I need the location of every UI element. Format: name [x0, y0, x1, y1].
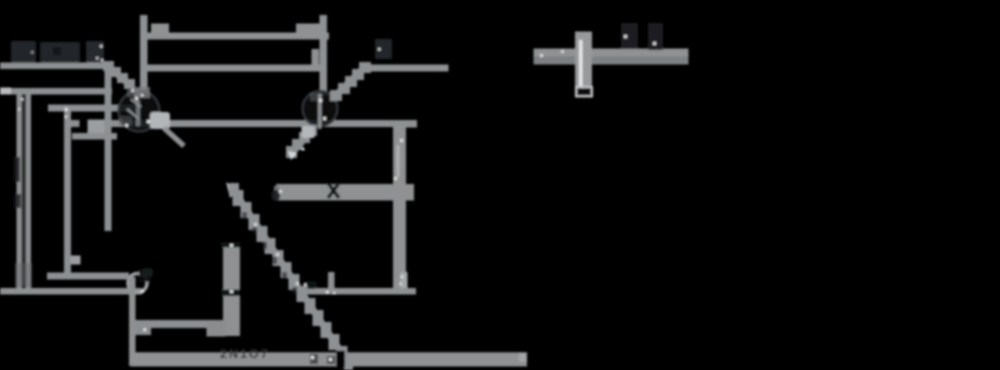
wire base lead of Q2 staircase — [334, 66, 366, 97]
wire top rail A — [140, 33, 329, 40]
wire thick bus y192 — [276, 184, 414, 201]
node speck on output line a — [304, 284, 307, 287]
transistor Q1 inner bar — [136, 100, 140, 126]
label supply text blob 3 — [86, 41, 104, 63]
wire left rail y91 — [0, 88, 112, 95]
resistor R5 dark band middle — [221, 290, 240, 297]
node lighter patch at rail right end — [519, 353, 527, 362]
node bump on rail A left — [151, 24, 169, 34]
resistor R4 long diagonal staircase body — [238, 197, 349, 364]
node speck Q1 d — [131, 89, 134, 92]
node gap in bottom rail at diagonal crossing — [336, 351, 345, 368]
node speck on R3 bottom — [394, 177, 397, 180]
node speck on R5 middle — [230, 290, 233, 293]
transistor Q2 inner bar — [318, 94, 322, 129]
node speck on battery wire b — [561, 50, 564, 53]
wire capacitor C1 left stub y123 — [67, 120, 80, 127]
transistor Q1 inner bright hatch — [127, 99, 141, 119]
node speck in glyph 2 — [653, 42, 656, 45]
node speck in supply label c — [101, 59, 104, 62]
resistor R4 top step — [229, 183, 239, 195]
battery B1 bottom box — [576, 87, 592, 97]
node speck Q1 c — [125, 124, 128, 127]
transistor Q1 emitter lead — [164, 128, 184, 146]
node speck on bottom rail a — [311, 356, 314, 359]
node dark blotch left of stub — [303, 281, 317, 289]
wire y277 horizontal — [47, 273, 129, 280]
wire collector line y124 overshoot — [403, 121, 417, 128]
node speck on R3 end cap a — [401, 276, 404, 279]
node white dot left tip of bus — [279, 190, 282, 193]
node speck on output line b — [326, 291, 329, 294]
battery B1 horizontal wire lower half — [534, 57, 689, 65]
node speck on pair b — [18, 108, 21, 111]
wire dim fill between pair strands — [22, 95, 27, 285]
transistor Q1 top mottled gray patch — [134, 87, 150, 98]
battery B1 bright core line — [579, 40, 583, 86]
node speck on output line c — [333, 292, 336, 295]
wire y108 horizontal to Q1 — [48, 105, 135, 112]
node speck Q1 e — [141, 94, 144, 97]
node speck in supply label d — [31, 51, 34, 54]
node speck below junction x67 — [65, 116, 68, 119]
resistor R3 light end cap — [400, 272, 408, 289]
label supply text blob 1 — [11, 41, 36, 62]
resistor R5 dark band top — [221, 242, 240, 248]
node bright tip of left rail — [0, 88, 11, 95]
node speck Q2 b — [323, 117, 326, 120]
transistor Q2 body circle — [303, 91, 338, 126]
resistor R3 bright core streak — [397, 145, 400, 177]
resistor R5 left block — [207, 321, 226, 337]
node speck on R4 a — [254, 223, 257, 226]
node speck at y324 junction — [144, 329, 147, 332]
node dark blob at bus left tip — [271, 190, 280, 201]
wire rail B — [144, 65, 323, 72]
wire y136 short horizontal — [72, 133, 117, 140]
label supply text blob 2 — [40, 42, 80, 62]
resistor R4 arrowhead — [226, 182, 238, 198]
resistor R3 right rail wide bar — [393, 124, 406, 291]
wire y68 right horizontal — [366, 65, 449, 72]
wire collector V1 vertical of Q1 — [140, 15, 148, 97]
node speck on R3 end cap b — [400, 283, 403, 286]
wire output line y291 right segment — [304, 288, 416, 295]
label dark mark on bottom rail b — [327, 356, 335, 364]
node speck Q2 a — [319, 99, 322, 102]
node tab on vertical x67 — [71, 256, 81, 265]
label supply text inner dark notch — [53, 47, 61, 55]
lamp dark cover top-right — [139, 269, 151, 282]
wire bus left tip taper — [274, 186, 279, 199]
wire long emitter line y123 — [104, 120, 417, 127]
label dark mark on bottom rail a — [310, 354, 318, 364]
node speck in glyph 1 — [624, 35, 627, 38]
wire left vertical pair strand 2 — [26, 90, 32, 291]
resistor R4 zigzag dark edge marks — [242, 212, 297, 294]
node speck on R5 top — [230, 244, 233, 247]
label dark glyph 1 above battery wire — [621, 23, 638, 49]
node speck crossing x108 — [106, 111, 109, 114]
wire ground line y291 left segment — [0, 288, 142, 295]
node speck in supply label a — [100, 45, 103, 48]
label R dark text blob — [375, 39, 392, 59]
wire bottom rail y359 — [131, 352, 527, 366]
battery B1 vertical bar — [575, 32, 592, 95]
battery B1 horizontal wire upper half — [534, 49, 689, 57]
resistor R5 wide vertical bar — [223, 243, 240, 336]
capacitor C1 plate blob — [88, 120, 105, 135]
node speck on R3 top — [400, 139, 403, 142]
node speck on battery wire a — [540, 54, 543, 57]
lamp dark fuzz above — [142, 268, 153, 277]
label dark smudge beside pair lower — [13, 194, 21, 208]
transistor Q1 bright blob — [150, 112, 170, 129]
svg-text:2N1O7: 2N1O7 — [220, 347, 270, 361]
node speck on bottom rail b — [329, 358, 332, 361]
node speck on label R — [378, 48, 381, 51]
transistor Q2 bright blob — [302, 126, 315, 138]
node speck junction x67 — [65, 108, 68, 111]
wire vertical x132 to bottom rail — [129, 277, 136, 366]
lamp circle component — [128, 274, 147, 293]
node speck on pair a — [21, 98, 24, 101]
wire emitter-bus vertical x67 — [64, 107, 71, 277]
transistor Q2 gray patch — [310, 93, 322, 101]
node speck on emitter staircase — [302, 148, 305, 151]
wire collector V2 vertical of Q2 — [320, 15, 328, 96]
node speck under lamp — [141, 290, 144, 293]
node speck on R4 c — [296, 282, 299, 285]
wire left vertical pair strand 1 — [17, 90, 23, 291]
wire stub above output line — [328, 272, 335, 291]
wire y324 horizontal to R5 block — [133, 320, 225, 328]
transistor Q2 emitter lead staircase — [290, 129, 313, 155]
transistor Q1 gray patch b — [119, 116, 132, 125]
node fuzzy merge at pair bottom — [15, 263, 32, 287]
node X junction mark on bus — [328, 183, 339, 198]
node bump on rail A right — [296, 24, 321, 34]
node speck on R4 b — [276, 253, 279, 256]
label dark glyph 2 above battery wire — [648, 23, 663, 50]
node speck in supply label b — [96, 57, 99, 60]
wire base lead of Q1 staircase — [107, 65, 131, 86]
node bump on rail B right — [312, 49, 320, 66]
transistor Q1 body circle — [119, 91, 160, 132]
transistor Q2 emitter arrow speck — [288, 151, 297, 160]
node speck Q1 b — [147, 120, 150, 123]
wire vertical x108 free stub — [105, 63, 112, 231]
node gray chunk at y324 junction — [135, 327, 151, 335]
wire supply-to-base-Q1 horizontal y65 — [0, 63, 108, 70]
label dark smudge R2 beside pair — [13, 157, 20, 182]
transistor Q1 gray patch a — [127, 88, 142, 97]
node speck Q1 a — [135, 97, 138, 100]
